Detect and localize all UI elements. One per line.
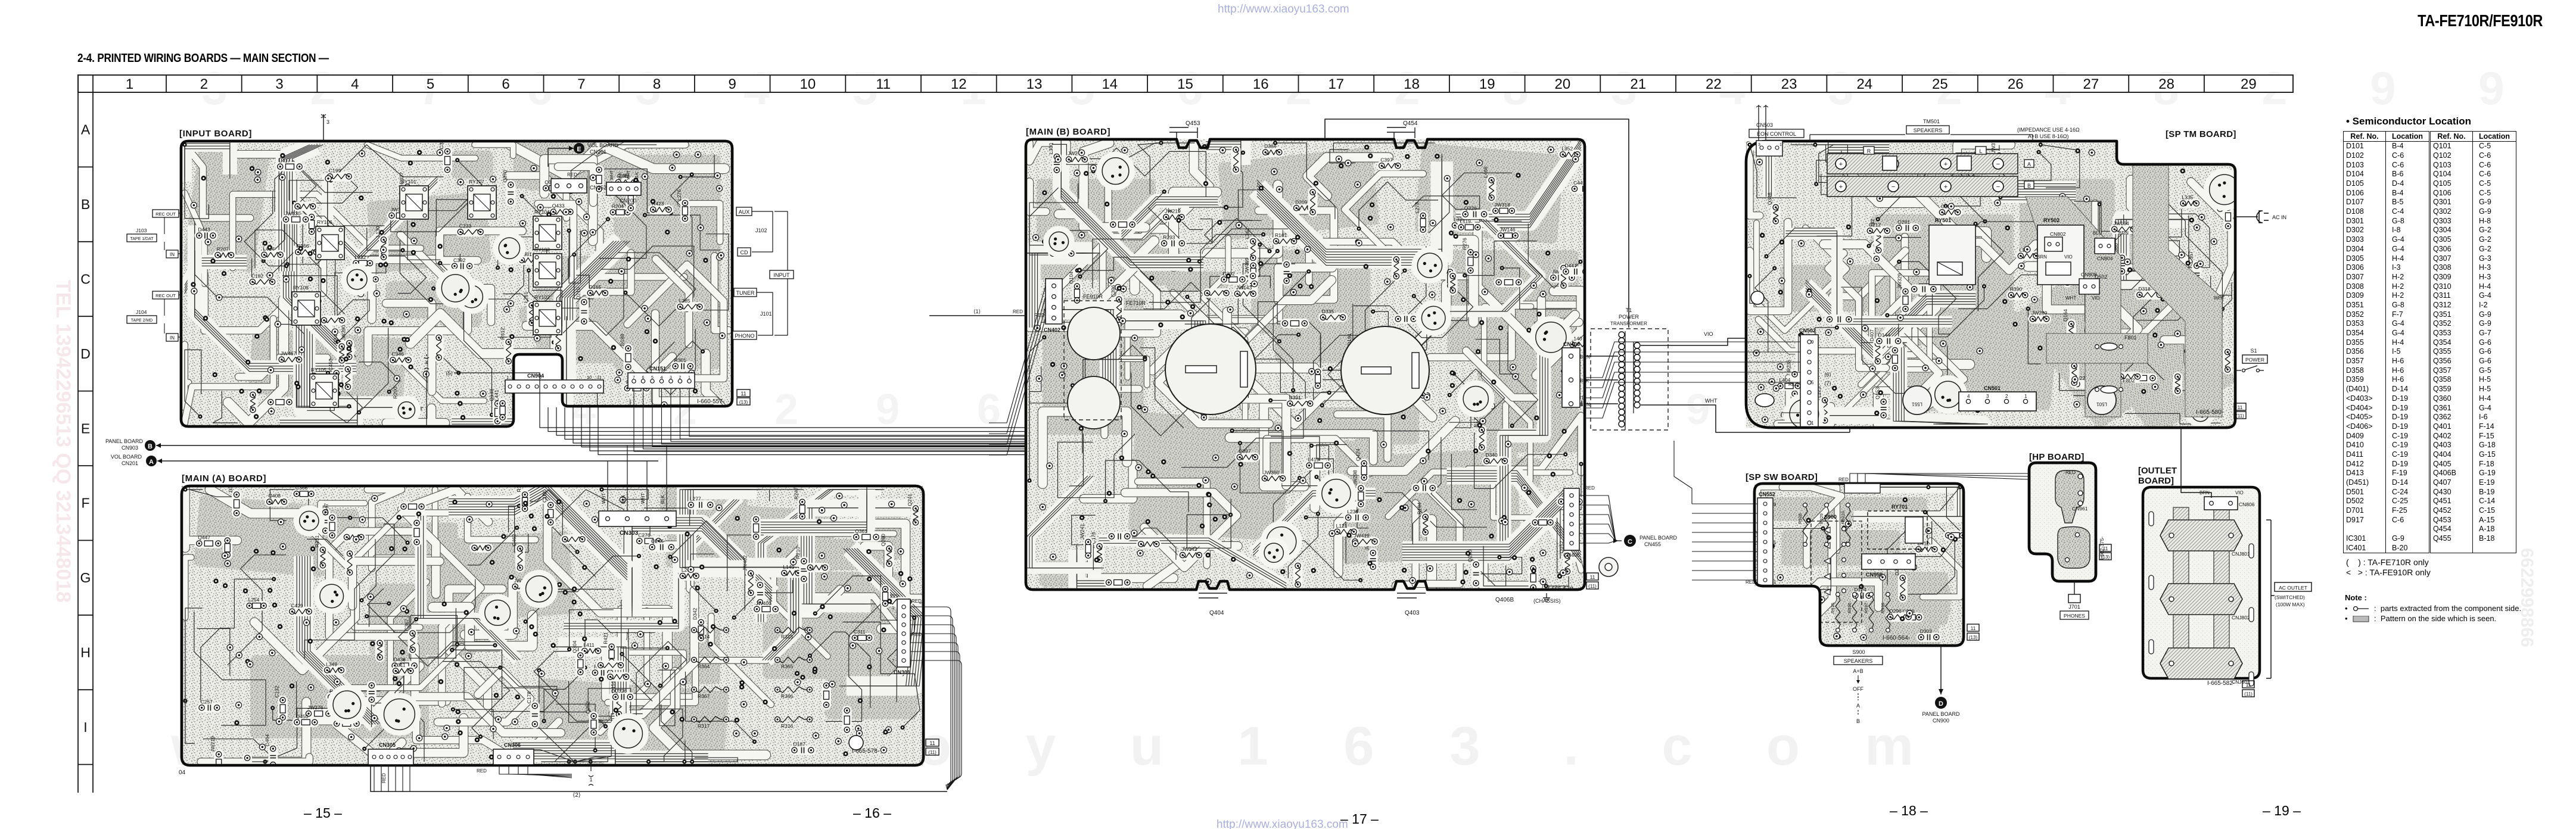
svg-text:Q424: Q424 bbox=[1355, 448, 1361, 461]
svg-text:22: 22 bbox=[1706, 76, 1722, 92]
svg-text:CN303: CN303 bbox=[620, 530, 639, 537]
coil L501 bbox=[2087, 386, 2116, 414]
svg-text:15: 15 bbox=[1177, 76, 1193, 92]
svg-text:BRN: BRN bbox=[2037, 254, 2047, 260]
svg-text:CD: CD bbox=[741, 250, 748, 255]
svg-text:−: − bbox=[1996, 161, 2000, 168]
svg-text:RY101: RY101 bbox=[401, 179, 416, 185]
blue watermark top bbox=[1218, 3, 1349, 16]
svg-text:RY106: RY106 bbox=[317, 219, 332, 225]
wire 6 and 7 from CN502 bottom bbox=[1781, 413, 1800, 417]
svg-text:BRN: BRN bbox=[1580, 354, 1590, 360]
speaker terminal bar A bbox=[1827, 154, 2018, 174]
svg-text:JW143: JW143 bbox=[1236, 285, 1252, 291]
blue watermark bottom bbox=[1217, 818, 1348, 829]
wires SP SW top CN960 bbox=[1850, 473, 2029, 484]
svg-text:18: 18 bbox=[1404, 76, 1420, 92]
svg-text:5: 5 bbox=[427, 76, 434, 92]
svg-text:E: E bbox=[81, 420, 90, 436]
svg-text:11: 11 bbox=[1590, 574, 1595, 580]
AC OUTLET bracket bbox=[2270, 520, 2272, 678]
svg-text:CN802: CN802 bbox=[2050, 231, 2066, 237]
svg-text:C367: C367 bbox=[404, 619, 410, 631]
svg-text:R161: R161 bbox=[1275, 232, 1287, 238]
svg-text:25: 25 bbox=[1932, 76, 1948, 92]
svg-text:Q252: Q252 bbox=[585, 701, 591, 713]
svg-text:B: B bbox=[1856, 718, 1860, 724]
svg-text:R231: R231 bbox=[314, 535, 320, 548]
svg-text:WHT: WHT bbox=[640, 493, 646, 504]
top column ruler band bbox=[78, 75, 2293, 92]
footprint hole bbox=[849, 735, 863, 750]
svg-text:JW146: JW146 bbox=[1499, 227, 1516, 233]
connector CN502 bbox=[1800, 335, 1818, 430]
svg-text:VOL BOARD: VOL BOARD bbox=[587, 142, 619, 148]
svg-text:L501: L501 bbox=[2096, 401, 2107, 407]
svg-text:Q296: Q296 bbox=[1889, 608, 1902, 614]
wire from B to right bbox=[156, 445, 1026, 446]
svg-text:1: 1 bbox=[506, 375, 509, 380]
large electrolytic capacitor C459 bbox=[1165, 324, 1256, 414]
relay RY501 bbox=[1929, 225, 1975, 285]
svg-text:7: 7 bbox=[577, 76, 585, 92]
svg-text:R210: R210 bbox=[795, 547, 801, 559]
svg-text:(11): (11) bbox=[1588, 584, 1597, 589]
capacitors C403/C453 left bbox=[1068, 307, 1120, 360]
svg-text:7: 7 bbox=[892, 658, 894, 663]
svg-text:⟨1⟩: ⟨1⟩ bbox=[973, 308, 981, 314]
svg-text:RED: RED bbox=[1013, 309, 1023, 314]
svg-text:RED: RED bbox=[2065, 470, 2076, 475]
svg-text:VIO: VIO bbox=[2235, 490, 2244, 495]
svg-text:JW467: JW467 bbox=[281, 351, 297, 357]
svg-text:JW360: JW360 bbox=[1264, 469, 1280, 475]
svg-text:Q326: Q326 bbox=[1464, 205, 1477, 211]
wire WHT entering SP TM board right bbox=[1849, 424, 1850, 432]
svg-text:11: 11 bbox=[2246, 682, 2251, 688]
svg-text:L332: L332 bbox=[354, 254, 366, 260]
svg-text:VIO: VIO bbox=[1704, 331, 1713, 337]
svg-text:CN301: CN301 bbox=[894, 669, 910, 675]
svg-text:JW402: JW402 bbox=[742, 555, 748, 571]
svg-text:11: 11 bbox=[929, 740, 935, 746]
svg-text:(11): (11) bbox=[2236, 413, 2244, 419]
connector CN455 right edge bbox=[1564, 488, 1579, 550]
svg-text:L239: L239 bbox=[1347, 509, 1358, 515]
svg-text:JW164: JW164 bbox=[2113, 220, 2129, 226]
power transformer T1 dashed outline bbox=[1591, 329, 1668, 430]
svg-text:L: L bbox=[1979, 148, 1982, 154]
svg-text:CN306: CN306 bbox=[504, 742, 521, 748]
svg-text:TEL 13942296513 QQ 3213448018: TEL 13942296513 QQ 3213448018 bbox=[52, 280, 74, 603]
connector CN352 bbox=[551, 179, 587, 193]
svg-text:+: + bbox=[1944, 161, 1947, 168]
FE910R dashed outline bbox=[1064, 301, 1121, 420]
svg-text:C429: C429 bbox=[291, 603, 303, 609]
svg-text:WHT: WHT bbox=[601, 493, 606, 504]
speaker terminal bar B bbox=[1827, 176, 2018, 197]
svg-text:4: 4 bbox=[425, 360, 428, 366]
input jack labels AUX CD TUNER PHONO bbox=[736, 207, 752, 216]
svg-text:SPEAKERS: SPEAKERS bbox=[1914, 127, 1943, 133]
svg-text:C132: C132 bbox=[274, 685, 280, 698]
svg-text:D340: D340 bbox=[1485, 452, 1498, 458]
svg-text:C199: C199 bbox=[329, 167, 341, 173]
svg-text:R276: R276 bbox=[1461, 238, 1467, 250]
svg-text:C311: C311 bbox=[854, 629, 866, 635]
svg-text:CN200: CN200 bbox=[620, 198, 636, 204]
wire long bottom bus from CN305/CN306 bbox=[371, 765, 947, 791]
svg-text:RY107: RY107 bbox=[469, 179, 484, 185]
svg-text:(IMPEDANCE USE 4-16Ω: (IMPEDANCE USE 4-16Ω bbox=[2017, 127, 2080, 133]
svg-text:PANEL BOARD: PANEL BOARD bbox=[1639, 535, 1678, 541]
SP SW BOARD outline with step bbox=[1754, 484, 1964, 646]
connector CN303 bbox=[599, 511, 676, 526]
svg-text:6: 6 bbox=[1343, 716, 1374, 777]
svg-text:WHT: WHT bbox=[1705, 398, 1718, 404]
svg-text:BLK: BLK bbox=[635, 172, 639, 180]
connector CN306 bbox=[493, 749, 534, 765]
svg-text:BLU: BLU bbox=[2093, 230, 2102, 236]
relay RY107 bbox=[468, 186, 496, 219]
svg-text:CN804: CN804 bbox=[2097, 255, 2113, 261]
svg-text:8: 8 bbox=[653, 76, 661, 92]
svg-text:3: 3 bbox=[670, 376, 672, 380]
svg-text:9: 9 bbox=[1686, 386, 1710, 434]
svg-text:F802: F802 bbox=[2123, 378, 2135, 384]
svg-text:Q210: Q210 bbox=[575, 287, 581, 300]
svg-text:1: 1 bbox=[126, 76, 133, 92]
svg-text:L468: L468 bbox=[1483, 166, 1489, 177]
svg-text:CNJ801: CNJ801 bbox=[2232, 551, 2250, 557]
svg-text:R204: R204 bbox=[612, 203, 624, 209]
svg-text:D384: D384 bbox=[1264, 144, 1277, 149]
svg-text:D: D bbox=[80, 346, 91, 361]
svg-text:⟨6⟩: ⟨6⟩ bbox=[1824, 372, 1831, 378]
svg-text:Q281: Q281 bbox=[1897, 219, 1910, 225]
svg-text:JW219: JW219 bbox=[210, 736, 216, 752]
svg-text:L140: L140 bbox=[1571, 335, 1582, 341]
wire 1 INPUT to MAIN B RED bbox=[929, 315, 1026, 316]
svg-text:OFF: OFF bbox=[1853, 686, 1863, 692]
wires CN303 up to A/B lines bbox=[607, 461, 608, 511]
svg-text:CN408: CN408 bbox=[1563, 341, 1580, 347]
svg-text:D187: D187 bbox=[794, 741, 806, 747]
gray wire path band right part bbox=[2026, 197, 2121, 417]
svg-text:(13): (13) bbox=[739, 400, 748, 405]
svg-text:−: − bbox=[1891, 183, 1895, 191]
svg-text:B: B bbox=[148, 443, 153, 450]
svg-text:AUX: AUX bbox=[739, 209, 750, 215]
connector CN804 bbox=[2095, 238, 2115, 254]
resistors column R928-R938 bbox=[1835, 594, 1840, 630]
svg-text:+: + bbox=[1839, 183, 1843, 191]
tape jack labels left of INPUT board bbox=[153, 210, 179, 217]
svg-text:RED: RED bbox=[381, 773, 387, 783]
wire SP TM bottom to outlet CN806 bbox=[2181, 428, 2211, 498]
svg-text:RED: RED bbox=[911, 632, 922, 637]
svg-text:14: 14 bbox=[1102, 76, 1118, 92]
svg-text:RY105: RY105 bbox=[311, 367, 326, 373]
svg-text:9: 9 bbox=[729, 76, 736, 92]
svg-text:JW318: JW318 bbox=[1494, 202, 1510, 208]
wire CN408 to T1 primary bbox=[1580, 356, 1618, 357]
svg-text:CN950: CN950 bbox=[1866, 572, 1883, 578]
svg-text:1: 1 bbox=[1237, 716, 1268, 777]
svg-text:CN405: CN405 bbox=[1563, 552, 1580, 558]
svg-text:9: 9 bbox=[2478, 62, 2504, 114]
svg-text:L361: L361 bbox=[1244, 227, 1250, 239]
svg-text:JW329: JW329 bbox=[1897, 273, 1903, 289]
svg-text:R200: R200 bbox=[392, 387, 398, 399]
svg-text:10: 10 bbox=[800, 76, 816, 92]
panel board CN900 node D bbox=[1935, 697, 1947, 709]
svg-text:CN305: CN305 bbox=[379, 742, 396, 748]
connector CN503 pins bbox=[1756, 141, 1782, 156]
svg-text:13: 13 bbox=[1026, 76, 1043, 92]
svg-text:L278: L278 bbox=[1414, 202, 1420, 213]
connector CN200 bbox=[606, 182, 641, 195]
svg-text:BOARD]: BOARD] bbox=[2138, 476, 2174, 486]
svg-text:R421: R421 bbox=[603, 632, 609, 644]
svg-text:R929: R929 bbox=[1819, 513, 1824, 524]
svg-text:R936: R936 bbox=[1847, 603, 1852, 613]
resistor ladder R314/R315 rows bottom right bbox=[692, 627, 813, 729]
A / B row labels bbox=[2024, 160, 2034, 167]
svg-text:1: 1 bbox=[1774, 579, 1777, 585]
wire loop MAIN B top to transformer bbox=[1325, 119, 1629, 328]
svg-text:IN: IN bbox=[170, 335, 175, 341]
svg-text:Q454: Q454 bbox=[1403, 120, 1418, 127]
svg-text:D342: D342 bbox=[692, 607, 698, 620]
wire CN402 bundle from left bbox=[989, 286, 1046, 423]
svg-text:B: B bbox=[2027, 183, 2031, 189]
svg-text:4: 4 bbox=[1967, 394, 1970, 399]
relay RY108 bbox=[292, 292, 321, 325]
svg-text:TAPE 1/DAT: TAPE 1/DAT bbox=[130, 237, 154, 241]
svg-text:C276: C276 bbox=[638, 532, 651, 538]
svg-text:G: G bbox=[80, 570, 91, 585]
connector CN808 bbox=[2079, 279, 2099, 294]
svg-text:AC IN: AC IN bbox=[2272, 214, 2286, 220]
svg-text:(13): (13) bbox=[2101, 554, 2110, 560]
svg-text:11: 11 bbox=[2103, 546, 2108, 551]
bracket J101 bbox=[757, 292, 773, 335]
svg-text:Q370: Q370 bbox=[502, 170, 508, 182]
svg-text:CN502: CN502 bbox=[1799, 328, 1816, 334]
svg-text:CNJ802: CNJ802 bbox=[2232, 615, 2250, 621]
relay RY101 bbox=[400, 186, 428, 219]
svg-text:[OUTLET: [OUTLET bbox=[2138, 466, 2177, 476]
svg-text:5: 5 bbox=[1811, 380, 1814, 385]
svg-text:JW469: JW469 bbox=[1244, 258, 1250, 274]
connector CN402 left edge bbox=[1046, 279, 1062, 324]
wire bundle into CN552 from left bbox=[1692, 503, 1757, 504]
bracket INPUT bbox=[774, 211, 788, 335]
svg-text:JW241: JW241 bbox=[1079, 523, 1085, 540]
svg-text:⟨7⟩: ⟨7⟩ bbox=[1824, 381, 1831, 387]
wire bundle INPUT board to MAIN B (8 wires) bbox=[540, 407, 1026, 428]
svg-text:23: 23 bbox=[1781, 76, 1797, 92]
svg-text:9: 9 bbox=[1774, 502, 1777, 507]
svg-text:RED: RED bbox=[911, 599, 922, 604]
svg-text:CN501: CN501 bbox=[1984, 385, 2001, 391]
HP jack pads bbox=[2055, 470, 2084, 523]
svg-text:CN903: CN903 bbox=[122, 445, 138, 451]
svg-text:D209: D209 bbox=[1295, 199, 1308, 205]
svg-text:IN: IN bbox=[170, 252, 175, 257]
left row ruler band A-I bbox=[77, 75, 79, 793]
svg-text:11: 11 bbox=[2238, 404, 2243, 410]
svg-text:y: y bbox=[1025, 716, 1056, 777]
MAIN (A) BOARD outline bbox=[182, 486, 923, 765]
svg-text:E: E bbox=[577, 146, 581, 153]
svg-text:I: I bbox=[83, 719, 87, 735]
svg-text:C: C bbox=[1628, 538, 1632, 546]
svg-text:Q404: Q404 bbox=[1209, 610, 1224, 616]
svg-text:29: 29 bbox=[2241, 76, 2257, 92]
svg-text:AC OUTLET: AC OUTLET bbox=[2279, 585, 2307, 591]
svg-text:A+B USE 8-16Ω): A+B USE 8-16Ω) bbox=[2028, 133, 2069, 139]
svg-text:1: 1 bbox=[2024, 394, 2027, 399]
svg-text:24: 24 bbox=[1856, 76, 1872, 92]
connector CN501 bbox=[1959, 392, 2036, 411]
svg-text:1: 1 bbox=[688, 376, 690, 380]
wire CN305 drops bbox=[374, 765, 375, 791]
svg-text:6: 6 bbox=[977, 386, 1001, 434]
svg-text:J701: J701 bbox=[2068, 604, 2080, 610]
svg-text:3: 3 bbox=[275, 76, 283, 92]
svg-text:6: 6 bbox=[502, 76, 509, 92]
svg-text:(11): (11) bbox=[2244, 691, 2253, 697]
svg-text:CN201: CN201 bbox=[590, 149, 606, 155]
phones jack J701 bbox=[2074, 581, 2075, 594]
svg-text:RY103: RY103 bbox=[534, 247, 550, 253]
large electrolytic capacitor C460 bbox=[1341, 326, 1429, 414]
svg-text:[MAIN (B) BOARD]: [MAIN (B) BOARD] bbox=[1026, 127, 1110, 137]
svg-text:[MAIN (A) BOARD]: [MAIN (A) BOARD] bbox=[182, 473, 266, 484]
svg-text:PHONES: PHONES bbox=[2064, 613, 2085, 619]
svg-text:1: 1 bbox=[1779, 143, 1782, 147]
svg-text:⟨2⟩: ⟨2⟩ bbox=[573, 792, 580, 799]
svg-text:RY502: RY502 bbox=[2043, 217, 2059, 223]
svg-text:4: 4 bbox=[661, 376, 663, 380]
AC IN connector bbox=[2235, 216, 2258, 217]
wires down to CN503 bbox=[1758, 105, 1759, 141]
svg-text:Q241: Q241 bbox=[907, 494, 913, 506]
svg-text:PANEL BOARD: PANEL BOARD bbox=[1922, 711, 1960, 717]
svg-text:R301: R301 bbox=[674, 357, 687, 363]
svg-text:JW142: JW142 bbox=[1181, 546, 1197, 552]
svg-text:[SP SW BOARD]: [SP SW BOARD] bbox=[1746, 472, 1818, 482]
svg-text:A: A bbox=[1856, 703, 1860, 709]
svg-text:C178: C178 bbox=[526, 691, 532, 704]
svg-text:R317: R317 bbox=[698, 723, 710, 729]
svg-text:I-660-557-: I-660-557- bbox=[697, 398, 724, 405]
svg-text:−: − bbox=[1996, 183, 2000, 191]
relay RY105 bbox=[310, 374, 338, 407]
outlet CNJ801 bbox=[2160, 520, 2242, 551]
svg-text:L551: L551 bbox=[1912, 401, 1922, 407]
relay RY701 dashed bbox=[1868, 511, 1927, 549]
svg-text:D407: D407 bbox=[1869, 329, 1875, 342]
wire bundle CN301 loop right side bbox=[910, 607, 951, 790]
svg-text:17: 17 bbox=[1328, 76, 1344, 92]
svg-text:I-665-579-: I-665-579- bbox=[1548, 586, 1575, 593]
svg-text:(100W MAX): (100W MAX) bbox=[2276, 602, 2305, 607]
svg-text:R928: R928 bbox=[1797, 513, 1803, 524]
svg-text:L417: L417 bbox=[279, 158, 290, 164]
svg-text:J104: J104 bbox=[136, 309, 147, 315]
svg-text:Q304: Q304 bbox=[571, 640, 577, 653]
transformer primary winding bbox=[1619, 332, 1625, 338]
svg-text:RED: RED bbox=[1585, 485, 1595, 491]
svg-text:CN455: CN455 bbox=[1644, 541, 1661, 547]
oval hole bottom left bbox=[1755, 394, 1774, 407]
svg-text:BLK: BLK bbox=[1580, 378, 1589, 384]
svg-text:D: D bbox=[1939, 700, 1943, 708]
svg-text:RED: RED bbox=[1746, 579, 1756, 585]
svg-text:6622998866: 6622998866 bbox=[2517, 548, 2537, 647]
svg-text:EON CONTROL: EON CONTROL bbox=[1757, 131, 1796, 137]
svg-text:BLK: BLK bbox=[660, 494, 665, 504]
svg-text:D165: D165 bbox=[589, 284, 602, 290]
svg-text:C346: C346 bbox=[391, 351, 404, 357]
svg-text:REC OUT: REC OUT bbox=[155, 293, 176, 298]
svg-text:WHT: WHT bbox=[627, 170, 631, 180]
wire CN306 drops bbox=[499, 765, 572, 774]
svg-text:D347: D347 bbox=[323, 503, 329, 516]
svg-text:L300: L300 bbox=[1048, 143, 1054, 154]
svg-text:12: 12 bbox=[951, 76, 967, 92]
svg-text:D335: D335 bbox=[1322, 308, 1334, 314]
svg-text:TAPE 2/MD: TAPE 2/MD bbox=[131, 319, 153, 323]
svg-text:3: 3 bbox=[1758, 143, 1760, 147]
svg-text:+: + bbox=[1944, 183, 1947, 191]
semiconductor location table heading bbox=[2346, 116, 2471, 127]
svg-text:Q397: Q397 bbox=[1239, 448, 1251, 454]
svg-text:JW276: JW276 bbox=[307, 705, 323, 710]
INPUT BOARD outline bbox=[181, 141, 732, 426]
svg-text:CN961: CN961 bbox=[2072, 506, 2088, 512]
svg-text:D188: D188 bbox=[620, 334, 626, 346]
svg-text:RED: RED bbox=[1838, 477, 1849, 482]
svg-text:Q403: Q403 bbox=[1405, 610, 1420, 616]
svg-text:Q447: Q447 bbox=[198, 535, 210, 541]
svg-text:(11): (11) bbox=[928, 750, 937, 755]
connector CN305 bbox=[368, 749, 413, 765]
svg-text:RED: RED bbox=[477, 768, 487, 774]
coil L551 bbox=[1903, 386, 1931, 414]
svg-text:S1: S1 bbox=[2250, 348, 2257, 354]
svg-text:VOL BOARD: VOL BOARD bbox=[111, 454, 142, 460]
svg-text:RY102: RY102 bbox=[534, 294, 550, 300]
svg-text:RY108: RY108 bbox=[293, 285, 309, 291]
svg-text:F801: F801 bbox=[2124, 335, 2137, 341]
svg-text:J102: J102 bbox=[755, 227, 767, 233]
svg-text:WHT: WHT bbox=[610, 170, 614, 180]
connector CN950 bbox=[1862, 554, 1915, 569]
svg-text:Q433: Q433 bbox=[552, 203, 565, 209]
svg-text:PHONO: PHONO bbox=[735, 333, 754, 339]
svg-text:Q361: Q361 bbox=[855, 528, 867, 534]
svg-text:3: 3 bbox=[1986, 394, 1989, 399]
svg-text:L254: L254 bbox=[248, 597, 260, 603]
svg-text:+: + bbox=[1839, 161, 1843, 168]
svg-text:D303: D303 bbox=[1920, 628, 1933, 634]
svg-text:[SP TM BOARD]: [SP TM BOARD] bbox=[2166, 129, 2236, 139]
wire CN455 to panel board node C bbox=[1579, 495, 1616, 541]
